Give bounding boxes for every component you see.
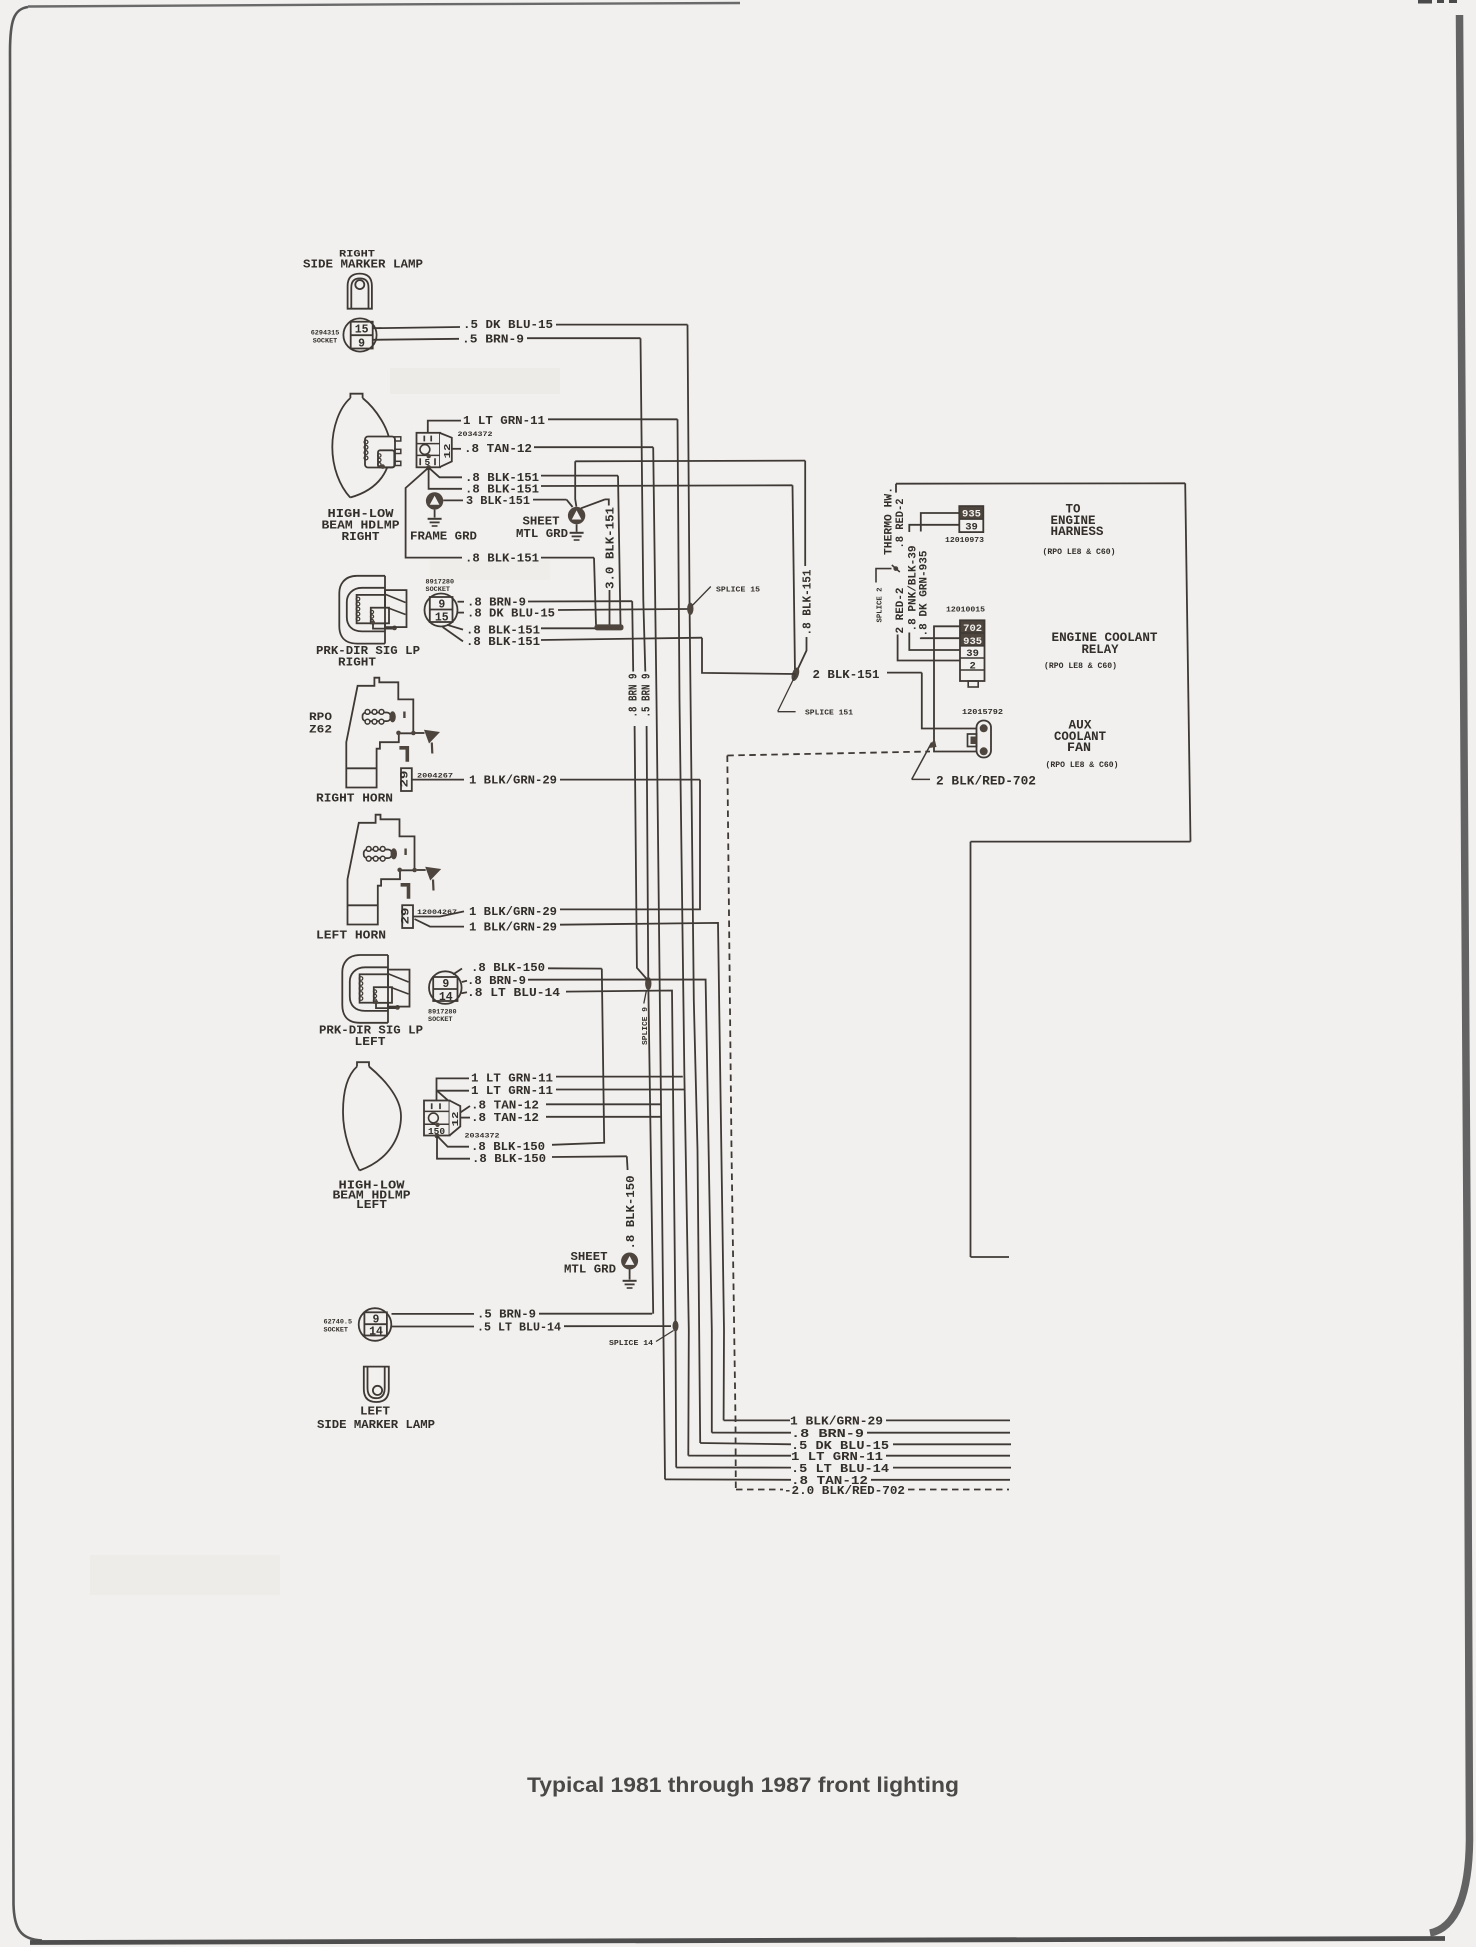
svg-text:LEFT: LEFT bbox=[355, 1035, 387, 1049]
svg-text:29: 29 bbox=[399, 771, 411, 788]
svg-text:2 RED-2: 2 RED-2 bbox=[895, 588, 907, 634]
svg-text:9: 9 bbox=[358, 337, 365, 350]
svg-text:2 BLK-151: 2 BLK-151 bbox=[813, 668, 880, 682]
svg-text:.5 BRN 9: .5 BRN 9 bbox=[640, 673, 653, 717]
svg-text:SPLICE 9: SPLICE 9 bbox=[642, 1006, 650, 1045]
svg-text:9: 9 bbox=[442, 978, 449, 991]
svg-text:9: 9 bbox=[438, 599, 445, 612]
svg-text:3.0 BLK-151: 3.0 BLK-151 bbox=[604, 507, 618, 589]
svg-text:.8 BLK-150: .8 BLK-150 bbox=[472, 1152, 546, 1166]
svg-text:-2.0 BLK/RED-702: -2.0 BLK/RED-702 bbox=[784, 1484, 905, 1498]
svg-text:RELAY: RELAY bbox=[1082, 643, 1119, 657]
svg-text:FRAME GRD: FRAME GRD bbox=[410, 530, 477, 544]
svg-text:LEFT: LEFT bbox=[356, 1198, 388, 1212]
svg-text:.8 RED-2: .8 RED-2 bbox=[895, 499, 907, 549]
svg-text:6294315: 6294315 bbox=[311, 330, 340, 338]
svg-text:(RPO LE8 & C60): (RPO LE8 & C60) bbox=[1044, 661, 1117, 671]
svg-text:.5 LT BLU-14: .5 LT BLU-14 bbox=[477, 1320, 562, 1334]
svg-text:.8 BLK-151: .8 BLK-151 bbox=[466, 635, 540, 649]
svg-text:1 BLK/GRN-29: 1 BLK/GRN-29 bbox=[469, 773, 557, 787]
svg-text:12010015: 12010015 bbox=[946, 607, 985, 615]
svg-text:62740.5: 62740.5 bbox=[324, 1318, 353, 1326]
svg-text:(RPO LE8 & C60): (RPO LE8 & C60) bbox=[1046, 760, 1119, 770]
svg-text:12: 12 bbox=[443, 444, 453, 459]
svg-text:Z62: Z62 bbox=[309, 724, 332, 736]
svg-text:.5 BRN-9: .5 BRN-9 bbox=[462, 332, 524, 346]
svg-text:14: 14 bbox=[439, 991, 453, 1004]
svg-text:15: 15 bbox=[355, 323, 369, 336]
svg-text:2: 2 bbox=[969, 660, 975, 672]
svg-text:SIDE MARKER LAMP: SIDE MARKER LAMP bbox=[303, 258, 423, 272]
svg-text:.8 BLK-150: .8 BLK-150 bbox=[624, 1176, 638, 1250]
svg-text:RIGHT: RIGHT bbox=[342, 530, 381, 544]
svg-text:.8 TAN-12: .8 TAN-12 bbox=[464, 442, 532, 456]
svg-text:14: 14 bbox=[369, 1326, 383, 1339]
svg-text:9: 9 bbox=[373, 1313, 380, 1326]
svg-text:1 BLK/GRN-29: 1 BLK/GRN-29 bbox=[469, 920, 557, 934]
svg-text:12010973: 12010973 bbox=[945, 537, 984, 545]
svg-text:LEFT HORN: LEFT HORN bbox=[316, 928, 386, 942]
svg-text:SOCKET: SOCKET bbox=[426, 586, 450, 594]
svg-text:15: 15 bbox=[435, 612, 449, 625]
svg-text:SPLICE 15: SPLICE 15 bbox=[716, 586, 761, 594]
svg-text:RIGHT HORN: RIGHT HORN bbox=[316, 791, 393, 805]
svg-text:HARNESS: HARNESS bbox=[1051, 525, 1104, 539]
svg-text:12015792: 12015792 bbox=[962, 709, 1003, 717]
svg-text:.8 BLK-151: .8 BLK-151 bbox=[801, 570, 815, 636]
svg-text:12: 12 bbox=[451, 1112, 461, 1127]
svg-text:THERMO HW.: THERMO HW. bbox=[884, 487, 896, 555]
svg-text:SPLICE 2: SPLICE 2 bbox=[877, 587, 885, 622]
svg-text:MTL GRD: MTL GRD bbox=[516, 527, 568, 541]
svg-text:935: 935 bbox=[963, 636, 982, 648]
svg-text:1 LT GRN-11: 1 LT GRN-11 bbox=[471, 1084, 553, 1098]
svg-text:SPLICE 14: SPLICE 14 bbox=[609, 1340, 654, 1348]
svg-text:.8 BRN 9: .8 BRN 9 bbox=[627, 673, 640, 717]
svg-text:39: 39 bbox=[966, 648, 979, 660]
svg-text:2004267: 2004267 bbox=[417, 772, 453, 779]
svg-text:.8 TAN-12: .8 TAN-12 bbox=[471, 1111, 539, 1125]
svg-text:2034372: 2034372 bbox=[458, 431, 493, 439]
svg-text:.8 BLK-150: .8 BLK-150 bbox=[471, 961, 545, 975]
svg-text:SOCKET: SOCKET bbox=[313, 338, 337, 346]
svg-text:Typical 1981 through 1987 fron: Typical 1981 through 1987 front lighting bbox=[527, 1773, 959, 1797]
svg-text:FAN: FAN bbox=[1067, 741, 1091, 755]
svg-text:.8 DK BLU-15: .8 DK BLU-15 bbox=[467, 606, 555, 620]
svg-text:SOCKET: SOCKET bbox=[428, 1016, 452, 1024]
svg-text:935: 935 bbox=[962, 509, 981, 521]
svg-text:SIDE MARKER LAMP: SIDE MARKER LAMP bbox=[317, 1418, 435, 1432]
svg-text:.5 DK BLU-15: .5 DK BLU-15 bbox=[463, 318, 553, 332]
svg-text:MTL GRD: MTL GRD bbox=[564, 1262, 616, 1276]
svg-text:(RPO LE8 & C60): (RPO LE8 & C60) bbox=[1043, 547, 1116, 557]
svg-text:1 LT GRN-11: 1 LT GRN-11 bbox=[463, 414, 545, 428]
svg-text:2 BLK/RED-702: 2 BLK/RED-702 bbox=[936, 774, 1036, 789]
svg-text:.8 TAN-12: .8 TAN-12 bbox=[471, 1098, 539, 1112]
svg-text:.8 DK GRN-935: .8 DK GRN-935 bbox=[919, 551, 931, 637]
svg-text:LEFT: LEFT bbox=[360, 1405, 390, 1419]
svg-text:.8 LT BLU-14: .8 LT BLU-14 bbox=[467, 986, 561, 1000]
svg-text:RIGHT: RIGHT bbox=[338, 655, 377, 669]
svg-text:702: 702 bbox=[963, 623, 982, 635]
svg-text:RPO: RPO bbox=[309, 712, 333, 724]
svg-text:1 BLK/GRN-29: 1 BLK/GRN-29 bbox=[469, 905, 557, 919]
svg-text:SOCKET: SOCKET bbox=[324, 1326, 348, 1334]
svg-text:.8 BLK-151: .8 BLK-151 bbox=[465, 551, 539, 565]
svg-text:39: 39 bbox=[965, 522, 978, 534]
svg-text:SPLICE 151: SPLICE 151 bbox=[805, 710, 854, 718]
svg-text:29: 29 bbox=[401, 908, 413, 925]
svg-text:3 BLK-151: 3 BLK-151 bbox=[466, 494, 530, 508]
